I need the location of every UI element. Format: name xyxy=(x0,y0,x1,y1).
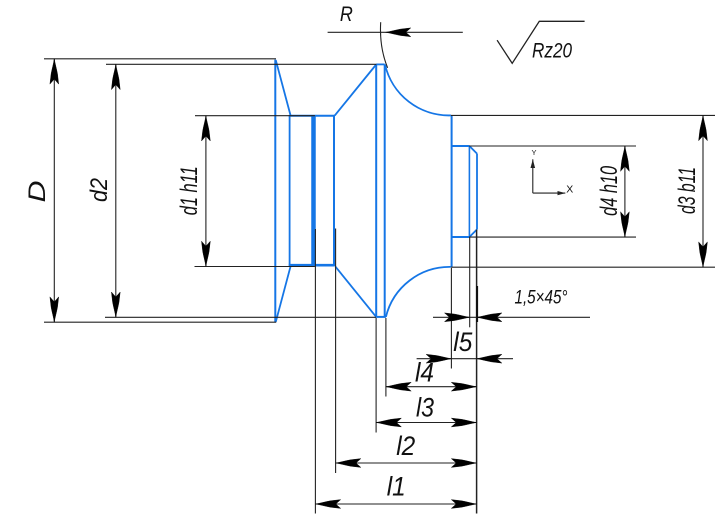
part: d4 chamfer edge line xyxy=(468,146,470,237)
dim d4 arrow bottom xyxy=(621,212,630,237)
svg-text:X: X xyxy=(566,183,573,195)
dim d2 line xyxy=(115,64,117,317)
dim l1 arrow right xyxy=(451,500,476,509)
part: hub bottom edge xyxy=(289,264,335,267)
axis X line xyxy=(533,192,566,194)
dim l3 left extension line xyxy=(375,318,377,433)
dim d2 bottom extension line xyxy=(105,316,376,318)
part: d4 chamfer bottom xyxy=(469,229,477,237)
dim d1 arrow top xyxy=(202,116,211,141)
svg-text:D: D xyxy=(24,181,51,203)
dim l2 line xyxy=(336,462,477,464)
svg-text:l5: l5 xyxy=(453,327,473,357)
dim l4 arrow right xyxy=(451,382,476,391)
svg-text:d2: d2 xyxy=(86,178,113,202)
right extension line reinforced segment xyxy=(476,286,478,322)
dim D arrow top xyxy=(50,59,59,84)
part: d4 stub bottom edge xyxy=(452,236,470,238)
dim l1 left extension line xyxy=(314,229,316,514)
dim l5 arrow right (points left) xyxy=(477,354,502,363)
part: d4 chamfer top xyxy=(469,146,477,154)
part: bottom taper xyxy=(335,267,376,317)
dim d4 arrow top xyxy=(621,146,630,171)
dim l5 line xyxy=(417,358,513,360)
dim D line xyxy=(53,59,55,322)
svg-text:l1: l1 xyxy=(387,472,406,502)
part: flange left face xyxy=(274,60,276,323)
dim d1 line xyxy=(205,116,207,267)
dim l4 arrow left xyxy=(386,382,411,391)
part: hub left edge xyxy=(289,116,291,267)
part: groove line xyxy=(311,116,316,267)
part: top fillet R xyxy=(385,64,451,115)
part: rim top edge xyxy=(376,63,385,65)
part: d4 stub top edge xyxy=(452,145,470,147)
dim l2 left extension line xyxy=(335,229,337,474)
svg-text:1,5×45°: 1,5×45° xyxy=(515,287,568,309)
svg-text:l3: l3 xyxy=(416,393,434,423)
dim d2 arrow bottom xyxy=(111,292,120,317)
chamfer arrow right (points left) xyxy=(477,313,502,322)
dim l1 arrow left xyxy=(315,500,340,509)
dim d4 top extension line xyxy=(469,145,636,147)
common right extension line xyxy=(476,230,478,514)
part: flange top cone xyxy=(276,60,291,115)
part: rim right edge xyxy=(384,64,386,317)
dim d3 arrow top xyxy=(699,115,708,140)
svg-text:l2: l2 xyxy=(396,431,415,461)
roughness check mark xyxy=(497,21,584,63)
svg-text:d3 b11: d3 b11 xyxy=(674,167,701,214)
part: rim bottom edge xyxy=(376,316,386,318)
svg-text:d4 h10: d4 h10 xyxy=(596,165,623,215)
dim d4 line xyxy=(624,146,626,237)
dim l1 line xyxy=(315,503,476,505)
dim d3 line xyxy=(702,115,704,267)
part: d4 right face xyxy=(476,154,478,230)
part: shaft end face xyxy=(451,115,453,267)
dim d1 top extension line xyxy=(195,115,315,117)
axis X arrowhead xyxy=(558,191,566,195)
dim l4 left extension line xyxy=(385,318,387,397)
part: hub top edge xyxy=(289,115,335,117)
dim D top extension line xyxy=(44,58,276,60)
part: top taper xyxy=(335,65,377,116)
dim l4 line xyxy=(386,386,477,388)
part: hub right edge xyxy=(333,116,335,267)
dim l2 arrow right xyxy=(451,459,476,468)
chamfer extension line xyxy=(469,238,471,328)
svg-text:d1 h11: d1 h11 xyxy=(176,166,203,215)
dim d3 arrow bottom xyxy=(699,242,708,267)
R leader arrow (points left) xyxy=(386,28,411,37)
dim l3 arrow left xyxy=(376,418,401,427)
dim d1 arrow bottom xyxy=(202,241,211,266)
axis Y arrowhead xyxy=(531,159,536,168)
dim l5 arrow left (points right) xyxy=(426,354,451,363)
dim d2 top extension line xyxy=(106,63,376,65)
part: flange bottom cone xyxy=(276,266,291,322)
axis Y line xyxy=(532,159,534,193)
chamfer dim line xyxy=(433,316,590,318)
dim d1 bottom extension line xyxy=(195,266,315,268)
part: rim left edge xyxy=(375,64,377,317)
svg-text:Y: Y xyxy=(531,148,536,157)
dim D arrow bottom xyxy=(50,297,59,322)
R leader arc xyxy=(380,22,387,68)
R leader line xyxy=(328,31,463,33)
svg-text:Rz20: Rz20 xyxy=(532,40,572,63)
dim d4 bottom extension line xyxy=(469,236,636,238)
dim D bottom extension line xyxy=(44,321,276,323)
svg-text:R: R xyxy=(340,2,353,26)
dim d2 arrow top xyxy=(111,64,120,89)
dim l2 arrow left xyxy=(336,459,361,468)
chamfer arrow left (points right) xyxy=(445,313,470,322)
dim d3 bottom extension line xyxy=(451,266,715,268)
part: bottom fillet xyxy=(386,267,451,317)
dim d3 top extension line xyxy=(451,114,715,116)
dim l3 line xyxy=(376,422,477,424)
dim l3 arrow right xyxy=(451,418,476,427)
dim l5 left extension line xyxy=(450,268,452,369)
